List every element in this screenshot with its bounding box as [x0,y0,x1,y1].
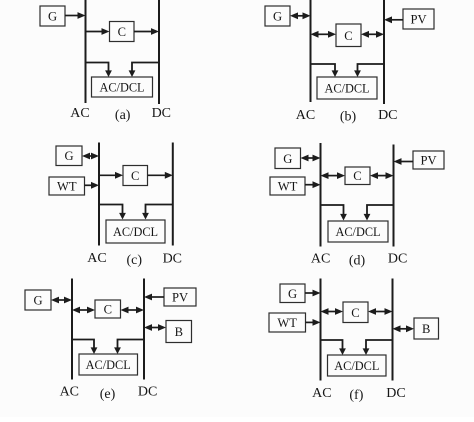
subfigure (c) wire WT to AC bus [85,182,100,189]
subfigure (b) wire AC bus to AC/DCL [311,64,339,77]
subfigure (e) AC bus line [71,279,73,380]
svg-text:C: C [353,169,361,183]
subfigure (e) load block AC/DCL [79,354,138,375]
subfigure (b) wire DC bus to AC/DCL [354,64,384,77]
svg-text:AC/DCL: AC/DCL [99,81,144,95]
subfigure (b) wire AC bus to C bidirectional [311,31,337,38]
subfigure (a) wire G to AC bus [65,12,86,19]
subfigure (c) DC bus line [172,143,174,246]
svg-text:B: B [175,325,183,339]
subfigure (d) wind turbine block WT [270,177,305,195]
svg-text:AC: AC [311,251,330,266]
subfigure (f) wire DC bus to AC/DCL [363,340,393,355]
svg-text:C: C [118,25,126,39]
svg-text:DC: DC [152,106,171,121]
subfigure (e) wire G to AC bus bidirectional [51,297,72,304]
svg-text:AC/DCL: AC/DCL [113,225,158,239]
svg-text:G: G [33,294,42,308]
subfigure (f) wire AC bus to C bidirectional [321,308,344,315]
subfigure (b) wire C to DC bus bidirectional [361,31,384,38]
svg-text:AC: AC [296,108,315,123]
subfigure (d) DC bus line [393,145,395,247]
svg-text:C: C [131,169,139,183]
subfigure (c) generator block G [56,146,82,166]
svg-text:(c): (c) [127,253,143,268]
svg-text:(e): (e) [100,387,116,402]
subfigure (c) wire G to AC bus bidirectional [82,153,99,160]
svg-text:G: G [283,152,292,166]
subfigure (e) wire AC bus to AC/DCL [72,340,97,355]
subfigure (f) DC bus line [392,279,394,381]
subfigure (d) AC bus line [320,143,322,247]
subfigure (e) wire DC bus to B bidirectional [144,324,166,331]
subfigure (d) wire WT to AC bus [305,181,321,188]
subfigure (a) wire AC bus to AC/DCL [86,63,112,78]
subfigure (b) photovoltaic block PV [403,9,434,29]
svg-text:AC: AC [60,385,79,400]
subfigure (e) converter block C [95,300,121,318]
svg-text:G: G [288,287,297,301]
svg-text:G: G [64,149,73,163]
subfigure (a) AC bus line [85,0,87,103]
svg-text:PV: PV [420,154,436,168]
subfigure (a) wire AC bus to C [86,28,110,35]
subfigure (b) wire PV to DC bus [384,16,403,23]
subfigure (f) converter block C [343,302,368,323]
subfigure (a) generator block G [40,6,65,26]
svg-text:DC: DC [163,251,182,266]
subfigure (c) wire DC bus to AC/DCL [142,205,173,220]
subfigure (d) wire C to DC bus bidirectional [370,172,394,179]
subfigure (e) wire DC bus to AC/DCL [114,340,144,355]
subfigure (e) generator block G [25,290,51,310]
svg-text:(f): (f) [349,388,363,403]
subfigure (b) converter block C [336,24,361,47]
svg-text:G: G [273,10,282,24]
subfigure (b) load block AC/DCL [317,77,377,99]
subfigure (a) DC bus line [158,0,160,104]
svg-text:C: C [344,29,352,43]
svg-text:AC/DCL: AC/DCL [334,359,379,373]
svg-text:C: C [351,306,359,320]
subfigure (d) photovoltaic block PV [413,151,444,169]
subfigure (f) load block AC/DCL [328,355,387,376]
svg-text:G: G [48,10,57,24]
svg-text:DC: DC [386,386,405,401]
subfigure (a) load block AC/DCL [92,77,153,97]
svg-text:WT: WT [57,180,77,194]
subfigure (f) wind turbine block WT [269,313,306,332]
subfigure (b) generator block G [265,6,290,26]
subfigure (f) wire DC bus to B bidirectional [393,325,415,332]
svg-text:WT: WT [278,180,298,194]
svg-text:AC: AC [87,251,106,266]
subfigure (b) wire G to AC bus bidirectional [290,12,311,19]
subfigure (d) load block AC/DCL [328,221,388,242]
svg-text:B: B [422,322,430,336]
subfigure (c) converter block C [123,166,148,186]
subfigure (b) AC bus line [310,0,312,102]
subfigure (f) generator block G [280,284,305,303]
svg-text:DC: DC [388,251,407,266]
svg-text:C: C [104,303,112,317]
subfigure (c) wire AC bus to AC/DCL [99,205,126,220]
subfigure (d) wire AC bus to AC/DCL [321,205,347,221]
subfigure (d) wire PV to DC bus [394,158,414,165]
subfigure (a) wire DC bus to AC/DCL [129,63,159,78]
subfigure (f) wire G to AC bus [305,290,321,297]
svg-text:PV: PV [410,13,426,27]
subfigure (f) AC bus line [320,279,322,381]
subfigure (a) converter block C [110,22,135,42]
svg-text:(d): (d) [349,253,366,268]
subfigure (d) wire DC bus to AC/DCL [364,205,394,221]
subfigure (c) wind turbine block WT [49,177,85,195]
subfigure (c) AC bus line [98,143,100,246]
svg-text:DC: DC [378,108,397,123]
subfigure (f) wire AC bus to AC/DCL [321,340,346,355]
svg-text:AC/DCL: AC/DCL [335,225,380,239]
subfigure (c) load block AC/DCL [106,220,165,243]
svg-text:DC: DC [138,385,157,400]
subfigure (b) DC bus line [383,0,385,104]
subfigure (d) converter block C [345,167,370,185]
svg-text:AC: AC [312,386,331,401]
subfigure (e) wire AC bus to C bidirectional [72,307,95,314]
svg-text:PV: PV [172,291,188,305]
svg-text:AC/DCL: AC/DCL [324,82,369,96]
subfigure (d) wire AC bus to C bidirectional [321,172,346,179]
subfigure (c) wire AC bus to C [99,172,123,179]
subfigure (a) wire C to DC bus [134,28,159,35]
subfigure (f) wire C to DC bus bidirectional [368,308,393,315]
subfigure (e) battery block B [166,321,192,343]
svg-text:AC/DCL: AC/DCL [86,358,131,372]
svg-text:WT: WT [277,316,297,330]
subfigure (d) generator block G [275,148,301,169]
subfigure (c) wire C to DC bus [148,172,173,179]
subfigure (e) wire PV to DC bus [144,294,164,301]
subfigure (d) wire G to AC bus bidirectional [301,155,321,162]
svg-text:(a): (a) [115,108,131,123]
subfigure (e) DC bus line [143,279,145,380]
subfigure (f) battery block B [414,318,439,339]
svg-text:AC: AC [70,106,89,121]
subfigure (e) photovoltaic block PV [164,288,196,306]
subfigure (e) wire C to DC bus bidirectional [121,307,145,314]
subfigure (f) wire WT to AC bus [306,319,321,326]
svg-text:(b): (b) [340,110,357,125]
